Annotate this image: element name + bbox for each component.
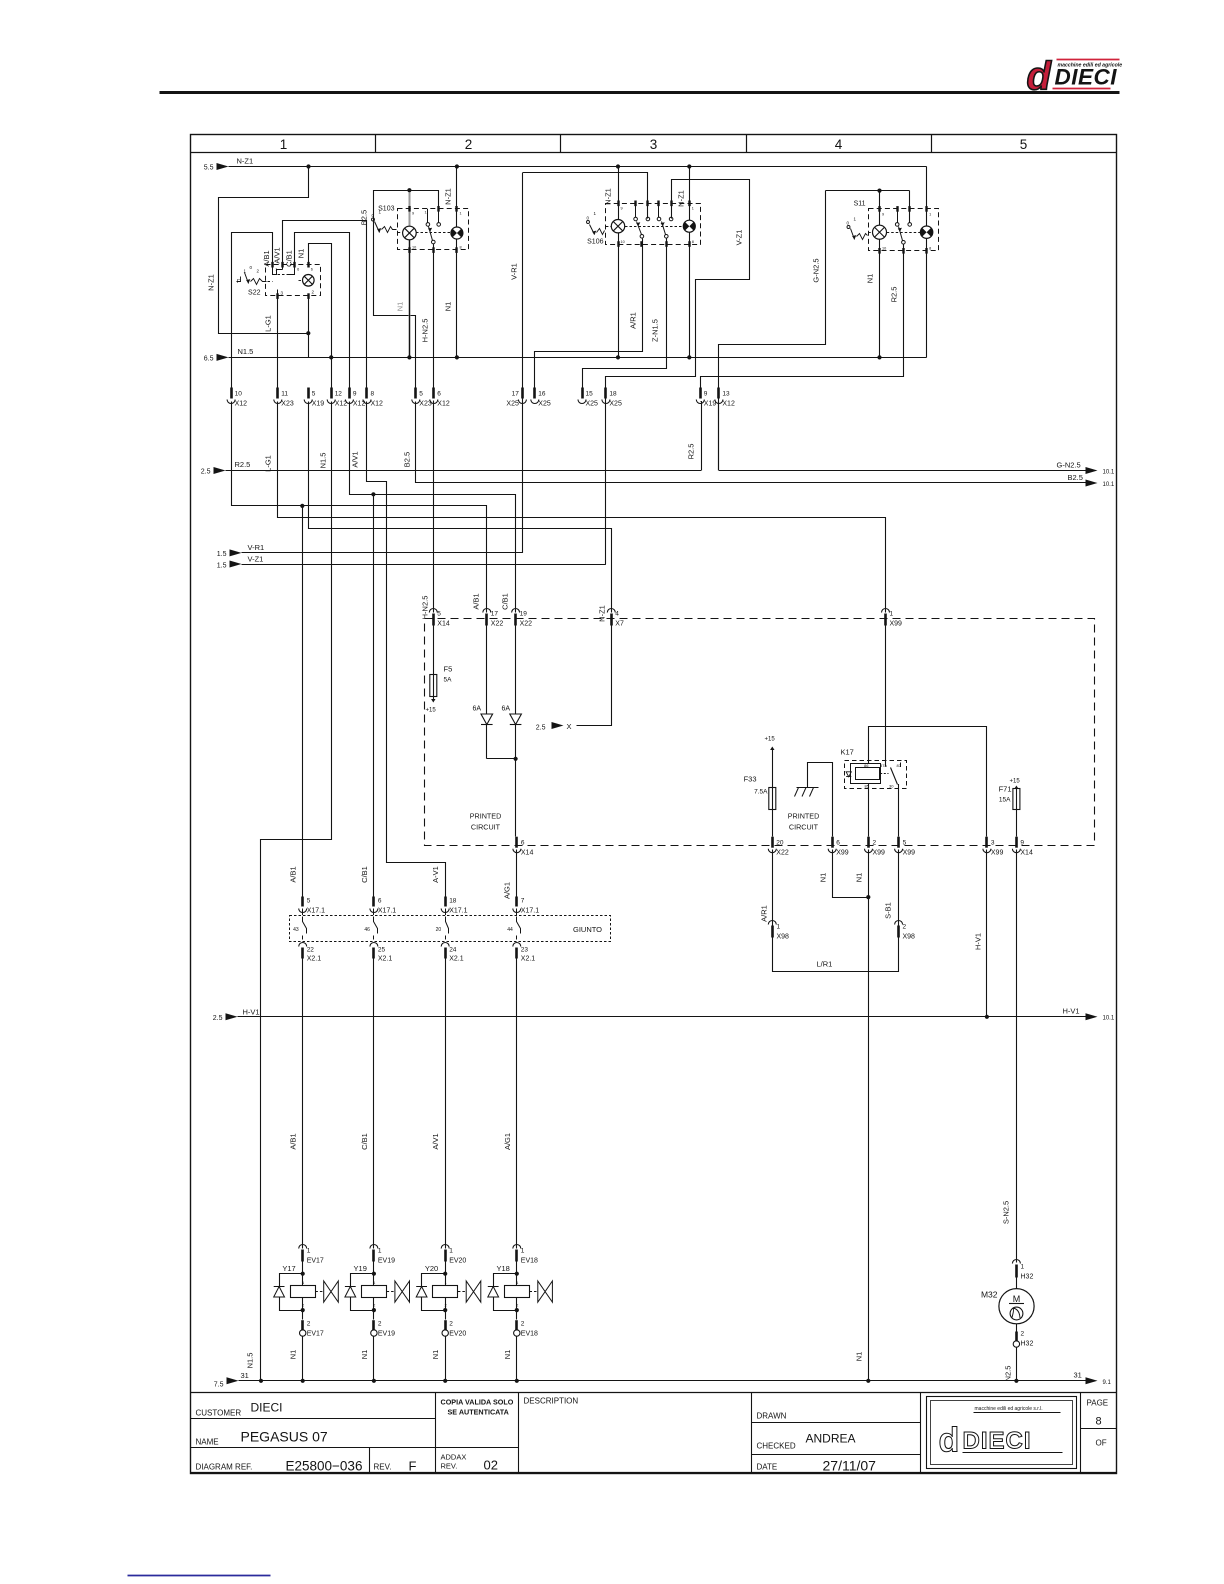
pin 1/EV20 <box>441 1245 449 1249</box>
svg-text:1: 1 <box>307 1248 311 1255</box>
pin 17/X25 <box>521 388 524 399</box>
svg-text:1: 1 <box>280 137 288 152</box>
printed circuit dashed box <box>425 619 1095 846</box>
svg-text:H-N2.5: H-N2.5 <box>421 319 430 343</box>
svg-text:12: 12 <box>335 391 343 398</box>
pin 16/X25 <box>533 388 536 399</box>
svg-text:X17.1: X17.1 <box>449 908 467 915</box>
wire Z-N1.5 S106 to pin15/X25 <box>583 239 667 388</box>
svg-text:N1: N1 <box>503 1350 512 1360</box>
svg-text:EV17: EV17 <box>307 1258 324 1265</box>
drawing frame <box>191 135 1117 1474</box>
svg-text:X12: X12 <box>437 401 450 408</box>
svg-text:G-N2.5: G-N2.5 <box>812 258 821 282</box>
pin 12/X12 <box>330 388 333 399</box>
svg-text:N1: N1 <box>444 302 453 312</box>
svg-text:17: 17 <box>512 391 520 398</box>
svg-text:10: 10 <box>882 247 886 251</box>
svg-text:4: 4 <box>615 611 619 618</box>
pin 11/X23 <box>276 388 279 399</box>
wire N-Z1 to S106 indicator <box>687 164 691 168</box>
svg-text:2: 2 <box>903 924 907 931</box>
svg-text:6: 6 <box>297 268 299 272</box>
svg-text:X2.1: X2.1 <box>307 956 322 963</box>
wire N1.5 pin12 to 31 bus <box>261 402 332 1381</box>
svg-text:2.5: 2.5 <box>201 469 211 476</box>
svg-text:CIRCUIT: CIRCUIT <box>789 823 819 832</box>
svg-text:X12: X12 <box>722 401 735 408</box>
svg-text:22: 22 <box>307 947 315 954</box>
svg-text:8: 8 <box>371 391 375 398</box>
svg-text:8: 8 <box>929 247 931 251</box>
switch S106 <box>587 203 701 245</box>
wire N1 Y19 to 31 bus <box>373 1336 375 1381</box>
svg-text:5: 5 <box>1020 137 1028 152</box>
svg-text:X14: X14 <box>521 850 534 857</box>
pin 1/H32 <box>1012 1260 1020 1264</box>
svg-text:X99: X99 <box>873 850 886 857</box>
solenoid valve Y19 <box>345 1262 410 1320</box>
svg-text:19: 19 <box>520 611 528 618</box>
svg-text:1: 1 <box>449 1248 453 1255</box>
svg-text:X99: X99 <box>991 850 1004 857</box>
svg-text:X99: X99 <box>836 850 849 857</box>
svg-text:V-R1: V-R1 <box>510 263 519 280</box>
svg-text:N-Z1: N-Z1 <box>207 274 216 291</box>
svg-text:A/G1: A/G1 <box>503 882 512 899</box>
pin 19/X22 <box>512 609 520 613</box>
svg-text:C/B1: C/B1 <box>360 866 369 883</box>
column header row <box>191 152 1117 154</box>
pin 23/X2.1 <box>513 943 521 947</box>
svg-text:2: 2 <box>873 840 877 847</box>
svg-text:7.5: 7.5 <box>214 1382 224 1389</box>
svg-text:10.1: 10.1 <box>1103 482 1115 488</box>
svg-text:macchine edili ed agricole s.r: macchine edili ed agricole s.r.l. <box>975 1406 1043 1412</box>
svg-text:1: 1 <box>521 1248 525 1255</box>
switch box edge ticks <box>271 262 273 268</box>
svg-text:15A: 15A <box>999 797 1011 804</box>
svg-text:A/B1: A/B1 <box>472 593 481 609</box>
svg-text:6.5: 6.5 <box>204 356 214 363</box>
svg-text:S106: S106 <box>587 239 603 246</box>
diode 6A b <box>515 626 517 837</box>
svg-text:9: 9 <box>704 391 708 398</box>
svg-text:S-N2.5: S-N2.5 <box>1002 1201 1011 1224</box>
pin 2/X98 <box>895 921 903 925</box>
svg-text:30: 30 <box>889 784 894 789</box>
svg-text:N1.5: N1.5 <box>238 347 254 356</box>
svg-text:F5: F5 <box>444 665 453 674</box>
wire N1 S11 lamp to bus <box>879 191 881 358</box>
wire N-Z1 to S103 indicator <box>455 164 459 168</box>
svg-text:A/V1: A/V1 <box>351 451 360 467</box>
GIUNTO connector box <box>290 916 611 942</box>
wire X99-1 to K17 <box>885 626 887 767</box>
relay K17 <box>841 748 907 789</box>
wire N2.5 M32 to 31 bus <box>1016 1347 1018 1381</box>
svg-text:H32: H32 <box>1021 1341 1034 1348</box>
svg-text:X14: X14 <box>1020 850 1033 857</box>
pin 5/X19 <box>307 388 310 399</box>
svg-text:5.5: 5.5 <box>204 165 214 172</box>
exit 31 right <box>1086 1377 1098 1384</box>
svg-text:1.5: 1.5 <box>217 562 227 569</box>
svg-text:NAME: NAME <box>196 1438 219 1447</box>
svg-text:X22: X22 <box>491 621 504 628</box>
svg-text:7.5A: 7.5A <box>754 789 768 796</box>
svg-text:A/B1: A/B1 <box>289 1133 298 1149</box>
svg-text:N1: N1 <box>819 873 828 883</box>
svg-text:X25: X25 <box>506 401 519 408</box>
pin 9/X14 bot <box>1015 837 1018 848</box>
svg-text:PEGASUS 07: PEGASUS 07 <box>241 1429 328 1445</box>
svg-text:N1: N1 <box>360 1350 369 1360</box>
svg-text:Y20: Y20 <box>425 1264 438 1273</box>
svg-text:02: 02 <box>484 1458 498 1473</box>
wire N-Z1 right drop through S11 lamp to N1.5 end <box>926 167 928 358</box>
wire A/R1 S106 to pin16/X25 <box>535 239 643 388</box>
svg-text:44: 44 <box>507 927 513 933</box>
lamp S106 <box>611 220 624 233</box>
svg-text:H-V1: H-V1 <box>974 933 983 950</box>
svg-text:K17: K17 <box>841 748 854 757</box>
pin 6/X14 bot <box>515 837 518 848</box>
svg-text:X: X <box>567 722 572 731</box>
ground printed circuit <box>808 763 833 837</box>
wire N1 S22 lamp-top to pin12 <box>309 244 332 395</box>
svg-text:X14: X14 <box>437 621 450 628</box>
wire L/R1 loop <box>773 938 899 972</box>
pin 1/EV19 <box>370 1245 378 1249</box>
svg-text:1: 1 <box>777 924 781 931</box>
pin 6/X17.1 <box>372 897 375 907</box>
svg-text:S22: S22 <box>248 290 261 297</box>
svg-text:1: 1 <box>890 611 894 618</box>
wire N1 Y17 to 31 bus <box>302 1336 304 1381</box>
pin 24/X2.1 <box>441 943 449 947</box>
fuse F5 <box>433 626 435 675</box>
pin 4/X7 <box>607 609 615 613</box>
svg-text:+15: +15 <box>765 737 776 743</box>
wire S22 lamp to N1.5 bus <box>308 296 310 357</box>
svg-text:8: 8 <box>692 240 694 244</box>
svg-text:15: 15 <box>586 391 594 398</box>
wire N1 Y20 to 31 bus <box>445 1336 447 1381</box>
pin 2/EV18 <box>515 1320 518 1330</box>
svg-text:25: 25 <box>378 947 386 954</box>
motor M32 <box>981 1278 1034 1324</box>
svg-text:CIRCUIT: CIRCUIT <box>471 823 501 832</box>
solenoid valve Y18 <box>488 1262 553 1320</box>
wire R2.5 S11 to pin9/X19 <box>701 245 904 388</box>
svg-text:S-B1: S-B1 <box>884 902 893 919</box>
svg-text:2.5: 2.5 <box>536 725 546 732</box>
svg-text:H-V1: H-V1 <box>243 1008 260 1017</box>
svg-text:DIAGRAM REF.: DIAGRAM REF. <box>196 1463 253 1472</box>
svg-text:A/B1: A/B1 <box>262 250 271 266</box>
pin 20/X22 bot <box>771 837 774 848</box>
wire A-V1 giunto to valve <box>445 909 447 916</box>
wire B2.5 pin5/X23 below <box>415 402 417 484</box>
svg-text:A/R1: A/R1 <box>760 905 769 922</box>
svg-text:L-G1: L-G1 <box>264 455 273 472</box>
svg-text:GIUNTO: GIUNTO <box>573 925 602 934</box>
svg-text:R2.5: R2.5 <box>687 444 696 460</box>
svg-text:6A: 6A <box>502 706 511 713</box>
wire N1 X99-2 to 31 bus <box>868 850 870 898</box>
wire A/B1 net pin10 to X22-17 <box>232 402 487 613</box>
wire N1 X99-6 jog <box>833 850 869 898</box>
wire diode junction <box>487 758 516 760</box>
svg-text:2: 2 <box>307 1321 311 1328</box>
wire C/B1 S22 to pin9 <box>295 233 350 395</box>
svg-text:18: 18 <box>449 898 457 905</box>
svg-text:C/B1: C/B1 <box>285 250 294 267</box>
svg-text:N-Z1: N-Z1 <box>237 157 254 166</box>
blue footer line <box>128 1575 271 1577</box>
changeover contact S106 a <box>634 217 638 221</box>
wire N1 S103 lamp (gray) <box>409 191 411 356</box>
svg-text:9.1: 9.1 <box>1103 1380 1112 1386</box>
svg-text:+15: +15 <box>1010 779 1021 785</box>
svg-text:F71: F71 <box>999 785 1012 794</box>
svg-text:1: 1 <box>460 212 462 216</box>
changeover contact S106 b <box>657 217 661 221</box>
svg-text:CUSTOMER: CUSTOMER <box>196 1409 242 1418</box>
svg-text:PAGE: PAGE <box>1087 1399 1109 1408</box>
switch S22 <box>237 247 321 296</box>
svg-text:S11: S11 <box>854 201 866 208</box>
pin 1/EV18 <box>513 1245 521 1249</box>
svg-text:L-G1: L-G1 <box>264 315 273 332</box>
svg-text:31: 31 <box>241 1371 249 1380</box>
changeover contact S103 <box>426 223 430 227</box>
svg-text:3: 3 <box>991 840 995 847</box>
svg-text:8: 8 <box>460 246 462 250</box>
svg-text:DIECI: DIECI <box>963 1428 1032 1455</box>
svg-text:B2.5: B2.5 <box>403 452 412 467</box>
svg-text:27/11/07: 27/11/07 <box>823 1458 877 1474</box>
svg-text:5: 5 <box>419 391 423 398</box>
svg-text:X99: X99 <box>903 850 916 857</box>
svg-text:1: 1 <box>692 207 694 211</box>
svg-text:N-Z1: N-Z1 <box>444 188 453 205</box>
svg-text:B2.5: B2.5 <box>1068 473 1083 482</box>
svg-text:N2.5: N2.5 <box>1004 1366 1013 1382</box>
svg-text:OF: OF <box>1096 1439 1107 1448</box>
wire G-N2.5 S11 feed <box>826 190 910 192</box>
svg-text:COPIA VALIDA SOLO: COPIA VALIDA SOLO <box>441 1398 514 1407</box>
svg-text:Z-N1.5: Z-N1.5 <box>651 319 660 342</box>
svg-text:EV19: EV19 <box>378 1258 395 1265</box>
svg-text:N-Z1: N-Z1 <box>677 190 686 207</box>
svg-text:10: 10 <box>235 391 243 398</box>
svg-text:C/B1: C/B1 <box>360 1133 369 1150</box>
svg-text:PRINTED: PRINTED <box>470 812 502 821</box>
svg-text:B2.5: B2.5 <box>360 210 369 225</box>
svg-text:N1: N1 <box>866 274 875 284</box>
indicator lamp S11 <box>920 226 932 238</box>
wire N-Z1 to S22 area <box>306 164 310 168</box>
wire B2.5 S103 enclosure to pin5/X23 <box>374 191 416 395</box>
indicator lamp S103 <box>451 227 463 239</box>
svg-text:N1: N1 <box>855 1352 864 1362</box>
wire L-G1 S22 to pin11 <box>277 296 279 394</box>
svg-text:d: d <box>939 1422 960 1460</box>
svg-text:EV18: EV18 <box>521 1258 538 1265</box>
pin 2/H32 <box>1016 1324 1018 1332</box>
wire V-Z1 through pin18/X25 <box>605 376 607 564</box>
DIECI logo top right <box>1027 55 1123 99</box>
lamp S103 <box>403 226 417 240</box>
pin 3/X99 bot <box>985 837 988 848</box>
pin 13/X12 <box>717 388 720 399</box>
svg-text:9: 9 <box>412 212 414 216</box>
svg-text:11: 11 <box>281 391 288 398</box>
svg-text:1: 1 <box>275 268 277 272</box>
svg-text:DIECI: DIECI <box>251 1401 283 1415</box>
wire C/B1 branch to GIUNTO <box>373 494 375 896</box>
svg-text:5: 5 <box>437 611 441 618</box>
svg-text:E25800−036: E25800−036 <box>286 1459 363 1474</box>
svg-text:6: 6 <box>311 268 313 272</box>
svg-text:10: 10 <box>621 240 625 244</box>
changeover contact S11 <box>895 223 899 227</box>
svg-text:A/G1: A/G1 <box>503 1133 512 1150</box>
svg-text:V-R1: V-R1 <box>248 543 265 552</box>
svg-text:C/B1: C/B1 <box>501 593 510 610</box>
svg-text:X23: X23 <box>281 401 294 408</box>
wire B2.5 to switch <box>410 191 439 209</box>
svg-text:31: 31 <box>1074 1371 1082 1380</box>
svg-text:2: 2 <box>465 137 473 152</box>
wire G-N2.5 exit path <box>719 191 826 471</box>
svg-text:5A: 5A <box>444 677 453 684</box>
svg-text:24: 24 <box>449 947 457 954</box>
svg-text:9: 9 <box>882 213 884 217</box>
svg-text:3: 3 <box>650 137 658 152</box>
svg-text:X17.1: X17.1 <box>378 908 396 915</box>
svg-text:X12: X12 <box>371 401 384 408</box>
svg-text:EV18: EV18 <box>521 1331 538 1338</box>
svg-text:6: 6 <box>437 391 441 398</box>
pin 2/EV17 <box>301 1320 304 1330</box>
svg-text:X2.1: X2.1 <box>521 956 536 963</box>
svg-text:2: 2 <box>1021 1331 1025 1338</box>
svg-text:9: 9 <box>1020 840 1024 847</box>
svg-text:13: 13 <box>722 391 730 398</box>
svg-text:PRINTED: PRINTED <box>788 812 820 821</box>
svg-text:V-Z1: V-Z1 <box>248 555 264 564</box>
exit G-N2.5 right <box>719 470 1086 472</box>
svg-text:X25: X25 <box>538 401 551 408</box>
exit B2.5 right <box>416 482 1086 484</box>
svg-text:DATE: DATE <box>757 1463 778 1472</box>
svg-text:M32: M32 <box>981 1290 998 1300</box>
fuse F71 <box>1014 786 1018 790</box>
svg-text:SE AUTENTICATA: SE AUTENTICATA <box>448 1408 509 1417</box>
wire A/B1 branch to GIUNTO <box>302 506 304 897</box>
wire A/V1 S22 to pin8 <box>283 221 367 395</box>
svg-text:10.1: 10.1 <box>1103 470 1115 476</box>
wire G-N2.5 pin13 below <box>718 402 720 471</box>
pin 18/X25 <box>604 388 607 399</box>
svg-text:L/R1: L/R1 <box>817 960 833 969</box>
svg-text:Y19: Y19 <box>354 1264 367 1273</box>
lamp S11 <box>873 225 887 239</box>
wire V-R1 to S106 contact <box>523 173 648 219</box>
svg-text:20: 20 <box>776 840 784 847</box>
pin 1/X98 <box>768 921 776 925</box>
diode 6A a <box>486 626 488 759</box>
svg-text:4: 4 <box>835 137 843 152</box>
svg-text:20: 20 <box>436 927 442 933</box>
svg-text:N1: N1 <box>396 302 405 312</box>
svg-text:6: 6 <box>378 898 382 905</box>
svg-text:17: 17 <box>491 611 499 618</box>
svg-text:CHECKED: CHECKED <box>757 1442 796 1451</box>
wire V-Z1 from S106 contact <box>606 180 750 377</box>
wire C/B1 net pin9 to X22-19 <box>350 402 516 613</box>
svg-text:G-N2.5: G-N2.5 <box>1057 461 1081 470</box>
svg-text:1.5: 1.5 <box>217 551 227 558</box>
svg-text:2.5: 2.5 <box>213 1015 223 1022</box>
pin 10/X12 <box>230 388 233 399</box>
svg-text:5: 5 <box>312 391 316 398</box>
wire S-N2.5 X14-9 to M32 <box>1016 850 1018 1263</box>
pin 1/EV17 <box>299 1245 307 1249</box>
svg-text:5: 5 <box>307 898 311 905</box>
svg-text:6: 6 <box>521 840 525 847</box>
pin 5/X99 bot <box>897 837 900 848</box>
wire K17 85 to X99-2 <box>868 784 870 837</box>
title block <box>191 1393 1117 1474</box>
svg-text:X25: X25 <box>609 401 622 408</box>
svg-text:18: 18 <box>609 391 617 398</box>
svg-text:N1.5: N1.5 <box>246 1353 255 1369</box>
svg-text:V-Z1: V-Z1 <box>735 230 744 246</box>
wire K17 86 to H-V1 <box>869 727 987 837</box>
wire A/R1 X22-20 to X98-1 <box>772 850 774 926</box>
svg-text:ADDAX: ADDAX <box>441 1453 467 1462</box>
wire K17 30 to X99-5 <box>898 784 900 837</box>
svg-text:N1: N1 <box>855 873 864 883</box>
wire A/G1 giunto to valve <box>516 909 518 916</box>
svg-text:7: 7 <box>521 898 525 905</box>
switch S103 <box>372 190 469 250</box>
svg-text:X7: X7 <box>615 621 624 628</box>
svg-text:10.1: 10.1 <box>1103 1016 1115 1022</box>
svg-text:N1.5: N1.5 <box>319 453 328 469</box>
wire L-G1 pin11 to X99-1 <box>278 402 886 613</box>
wire H-N2.5 S103 switch to pin6/X12 and pin5/X14 <box>433 244 435 395</box>
svg-text:X17.1: X17.1 <box>521 908 539 915</box>
pin 7/X17.1 <box>515 897 518 907</box>
node X jog from pin4/X7 <box>577 626 612 726</box>
svg-text:F: F <box>409 1459 417 1474</box>
wire H-V1 X99-3 to bus <box>986 850 988 1017</box>
wire N1 Y18 to 31 bus <box>516 1336 518 1381</box>
exit H-V1 right <box>1086 1013 1098 1020</box>
wire A/B1 giunto to valve <box>302 909 304 916</box>
wire C/B1 giunto to valve <box>373 909 375 916</box>
wire R2.5 bus to pin9/X19 <box>701 402 702 471</box>
svg-text:EV17: EV17 <box>307 1331 324 1338</box>
svg-text:REV.: REV. <box>441 1462 458 1471</box>
svg-text:N1: N1 <box>431 1350 440 1360</box>
pin 9/X12 <box>348 388 351 399</box>
